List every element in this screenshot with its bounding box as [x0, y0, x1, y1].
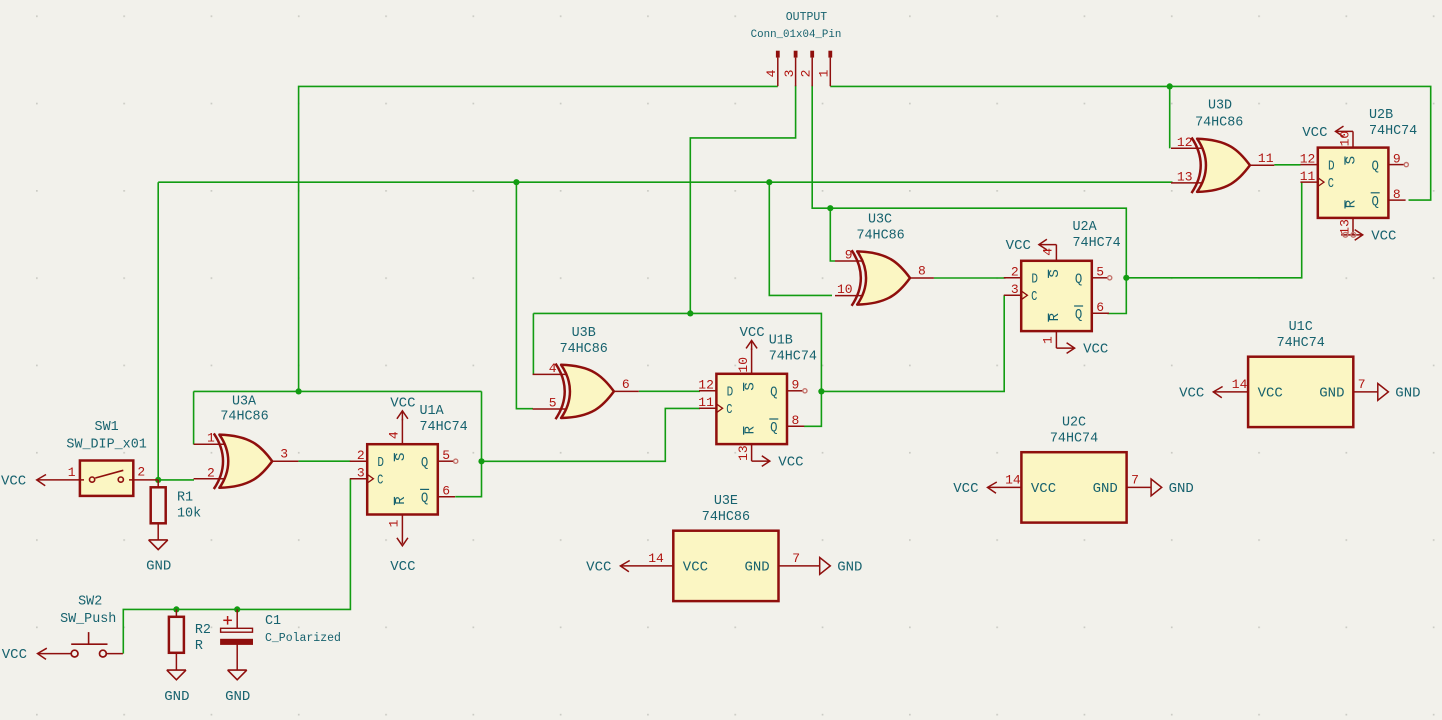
svg-text:U3A: U3A [232, 394, 257, 409]
svg-text:6: 6 [1096, 300, 1104, 315]
svg-text:VCC: VCC [2, 647, 27, 663]
svg-text:7: 7 [1131, 472, 1139, 487]
svg-text:74HC86: 74HC86 [560, 342, 608, 357]
svg-text:14: 14 [648, 551, 664, 566]
svg-text:8: 8 [792, 413, 800, 428]
svg-text:VCC: VCC [1371, 228, 1396, 244]
svg-text:Q: Q [421, 490, 428, 506]
power VCC at SW2 [2, 647, 47, 663]
wire U3C pin9 branch [830, 208, 835, 261]
wire OUTPUT pin4 to U3A net [299, 86, 778, 391]
svg-text:74HC74: 74HC74 [1073, 236, 1121, 251]
wire U3B pin4 drop [532, 313, 534, 374]
svg-text:12: 12 [698, 378, 714, 393]
flip-flop U2B 74HC74 [1300, 108, 1418, 245]
svg-text:R1: R1 [177, 491, 193, 506]
xor gate U3C 74HC86 [835, 212, 934, 305]
connector J OUTPUT Conn_01x04_Pin [751, 11, 842, 86]
svg-text:12: 12 [1177, 135, 1193, 150]
flip-flop U1A 74HC74 [350, 395, 468, 575]
svg-text:GND: GND [837, 559, 862, 575]
svg-text:U3B: U3B [572, 326, 596, 341]
svg-text:3: 3 [782, 70, 797, 78]
svg-text:VCC: VCC [1, 473, 26, 489]
svg-text:4: 4 [387, 431, 402, 439]
wire U3A pin1 net [194, 390, 482, 392]
junction at 299,391 [296, 388, 302, 394]
svg-text:R: R [1047, 312, 1063, 321]
svg-text:C: C [1328, 176, 1334, 192]
svg-text:VCC: VCC [778, 455, 803, 471]
svg-text:9: 9 [845, 248, 853, 263]
svg-text:GND: GND [1093, 481, 1118, 497]
junction at 690,313 [687, 310, 693, 316]
svg-text:8: 8 [918, 264, 926, 279]
wire U3B out to U1B D [639, 390, 700, 392]
svg-text:6: 6 [622, 377, 630, 392]
svg-text:74HC86: 74HC86 [220, 409, 268, 424]
resistor R1 10k [151, 480, 201, 540]
svg-text:2: 2 [1011, 265, 1019, 280]
svg-text:VCC: VCC [739, 325, 764, 341]
wire U3C out to U2A D [934, 277, 1006, 279]
svg-text:9: 9 [792, 378, 800, 393]
xor gate U3B 74HC86 [533, 326, 639, 419]
svg-text:3: 3 [357, 466, 365, 481]
svg-text:D: D [1328, 158, 1335, 174]
svg-text:13: 13 [1177, 169, 1193, 184]
svg-text:Q: Q [1075, 272, 1082, 288]
wire SW2 clock net [123, 479, 350, 654]
ground GND at R2 [164, 670, 189, 705]
svg-text:Q: Q [1075, 307, 1082, 323]
junction at 158,480 [155, 477, 161, 483]
svg-text:4: 4 [1041, 248, 1056, 256]
junction at 1126,278 [1123, 275, 1129, 281]
svg-text:74HC74: 74HC74 [1050, 432, 1098, 447]
svg-text:4: 4 [764, 69, 779, 77]
svg-text:1: 1 [1041, 336, 1056, 344]
switch SW1 SW_DIP_x01 [38, 420, 159, 496]
svg-text:S: S [1047, 269, 1063, 277]
svg-text:11: 11 [1300, 169, 1316, 184]
ground GND at C1 [225, 670, 250, 705]
unconnected markers U2B pin13 [1343, 232, 1356, 237]
svg-text:SW1: SW1 [95, 420, 119, 435]
svg-text:VCC: VCC [390, 559, 415, 575]
svg-text:GND: GND [1395, 385, 1420, 401]
svg-text:GND: GND [164, 689, 189, 705]
junction at 821,391 [818, 388, 824, 394]
svg-text:8: 8 [1393, 187, 1401, 202]
wire SW1 bus [158, 181, 1172, 183]
svg-text:10k: 10k [177, 506, 201, 521]
svg-text:13: 13 [736, 445, 751, 461]
svg-text:C: C [1031, 289, 1037, 305]
svg-text:D: D [1031, 272, 1038, 288]
svg-text:1: 1 [68, 465, 76, 480]
svg-text:R: R [742, 425, 758, 434]
svg-text:U3D: U3D [1208, 99, 1232, 114]
wire SW1 bus drop [157, 182, 159, 480]
svg-text:OUTPUT: OUTPUT [786, 11, 828, 24]
svg-text:9: 9 [1393, 151, 1401, 166]
wire U3A pin1 drop [193, 391, 195, 444]
svg-text:1: 1 [387, 519, 402, 527]
svg-text:5: 5 [1096, 265, 1104, 280]
junction at 516,182 [513, 179, 519, 185]
svg-text:C: C [726, 402, 732, 418]
switch SW2 SW_Push [38, 595, 123, 657]
svg-text:14: 14 [1005, 472, 1021, 487]
svg-text:GND: GND [1319, 385, 1344, 401]
svg-text:1: 1 [207, 431, 215, 446]
svg-text:Q: Q [1372, 158, 1379, 174]
svg-text:2: 2 [357, 448, 365, 463]
svg-text:Q: Q [421, 455, 428, 471]
svg-text:74HC86: 74HC86 [856, 229, 904, 244]
junction at 176,609 [173, 606, 179, 612]
svg-text:R: R [195, 639, 203, 654]
svg-text:R: R [393, 496, 409, 505]
svg-text:2: 2 [137, 465, 145, 480]
svg-text:10: 10 [837, 282, 853, 297]
svg-text:Conn_01x04_Pin: Conn_01x04_Pin [751, 29, 842, 41]
svg-text:VCC: VCC [683, 559, 708, 575]
junction at 1170,86 [1167, 83, 1173, 89]
svg-text:Q: Q [770, 420, 777, 436]
svg-text:Q: Q [770, 385, 777, 401]
svg-text:10: 10 [1337, 131, 1352, 147]
svg-text:VCC: VCC [1083, 342, 1108, 358]
resistor R2 R [169, 609, 211, 669]
svg-text:S: S [742, 382, 758, 390]
svg-text:S: S [1344, 156, 1360, 164]
svg-text:SW_Push: SW_Push [60, 612, 116, 627]
svg-text:C1: C1 [265, 614, 281, 629]
junction at 769,182 [766, 179, 772, 185]
svg-text:2: 2 [798, 70, 813, 78]
svg-text:VCC: VCC [1006, 238, 1031, 254]
junction at 830,208 [827, 205, 833, 211]
svg-text:74HC74: 74HC74 [1277, 336, 1325, 351]
svg-text:14: 14 [1232, 377, 1248, 392]
power unit U3E 74HC86 [586, 494, 862, 601]
svg-text:Q: Q [1372, 194, 1379, 210]
svg-text:GND: GND [146, 559, 171, 575]
wire U2A Q junction to U2B clock [1126, 182, 1301, 278]
svg-text:SW2: SW2 [78, 595, 102, 610]
svg-text:4: 4 [549, 361, 557, 376]
svg-text:U2A: U2A [1073, 220, 1098, 235]
capacitor C1 C_Polarized [221, 609, 341, 670]
svg-text:1: 1 [817, 69, 832, 77]
svg-text:C_Polarized: C_Polarized [265, 632, 341, 645]
svg-text:2: 2 [207, 465, 215, 480]
svg-text:VCC: VCC [1302, 125, 1327, 141]
svg-text:VCC: VCC [953, 481, 978, 497]
svg-text:7: 7 [792, 551, 800, 566]
xor gate U3A 74HC86 [194, 394, 299, 489]
svg-text:3: 3 [1011, 282, 1019, 297]
wire OUTPUT pin2 to U2A net [812, 86, 1126, 314]
svg-text:12: 12 [1300, 151, 1316, 166]
svg-text:C: C [377, 472, 383, 488]
svg-text:3: 3 [280, 447, 288, 462]
junction at 482,461 [478, 458, 484, 464]
svg-text:R: R [1344, 199, 1360, 208]
power unit U2C 74HC74 [953, 416, 1194, 523]
svg-text:11: 11 [1258, 151, 1274, 166]
wire U1A Qbar to U1B clock [482, 408, 701, 461]
svg-text:SW_DIP_x01: SW_DIP_x01 [66, 437, 146, 452]
svg-text:GND: GND [1169, 481, 1194, 497]
svg-text:10: 10 [736, 357, 751, 373]
wire OUTPUT pin3 to U3B/U1B net [690, 86, 795, 314]
svg-text:74HC86: 74HC86 [702, 510, 750, 525]
xor gate U3D 74HC86 [1171, 99, 1274, 194]
wire U3A out to U1A D [298, 460, 350, 462]
svg-text:U1C: U1C [1289, 320, 1313, 335]
svg-text:VCC: VCC [586, 559, 611, 575]
power unit U1C 74HC74 [1179, 320, 1420, 427]
svg-text:5: 5 [442, 448, 450, 463]
svg-text:D: D [377, 455, 384, 471]
wire U1B Qbar to U2A clock [821, 295, 1004, 391]
svg-text:S: S [393, 453, 409, 461]
svg-text:U3C: U3C [868, 212, 892, 227]
svg-text:74HC74: 74HC74 [420, 420, 468, 435]
junction at 237,609 [234, 606, 240, 612]
svg-text:VCC: VCC [390, 395, 415, 411]
wire U3D out to U2B D [1274, 164, 1300, 166]
wire U3B pin5 branch [516, 182, 533, 409]
wire U1A Qbar net [455, 391, 481, 496]
wire SW1 junction to U3A pin2 [158, 479, 194, 481]
svg-text:VCC: VCC [1179, 385, 1204, 401]
svg-text:D: D [727, 385, 734, 401]
flip-flop U2A 74HC74 [1004, 220, 1121, 358]
svg-text:R2: R2 [195, 623, 211, 638]
flip-flop U1B 74HC74 [698, 325, 817, 471]
svg-text:VCC: VCC [1031, 481, 1056, 497]
svg-text:U1A: U1A [420, 404, 445, 419]
ground GND at R1 [146, 540, 171, 575]
svg-text:74HC74: 74HC74 [1369, 124, 1417, 139]
svg-text:GND: GND [744, 559, 769, 575]
svg-text:U3E: U3E [714, 494, 738, 509]
wire U3C pin10 branch [769, 182, 832, 295]
svg-text:6: 6 [442, 484, 450, 499]
svg-text:U2C: U2C [1062, 416, 1086, 431]
svg-text:74HC86: 74HC86 [1195, 115, 1243, 130]
svg-text:U1B: U1B [769, 334, 793, 349]
wire OUTPUT pin1 to U2B Q-bar net [830, 86, 1430, 200]
svg-text:11: 11 [698, 395, 714, 410]
svg-text:5: 5 [549, 396, 557, 411]
svg-text:7: 7 [1358, 377, 1366, 392]
svg-text:VCC: VCC [1258, 385, 1283, 401]
power VCC at SW1 [1, 473, 46, 489]
svg-text:74HC74: 74HC74 [769, 350, 817, 365]
wire U3D pin12 drop [1169, 86, 1171, 148]
svg-text:GND: GND [225, 689, 250, 705]
wire U1B feedback net [533, 313, 821, 426]
svg-text:U2B: U2B [1369, 108, 1393, 123]
